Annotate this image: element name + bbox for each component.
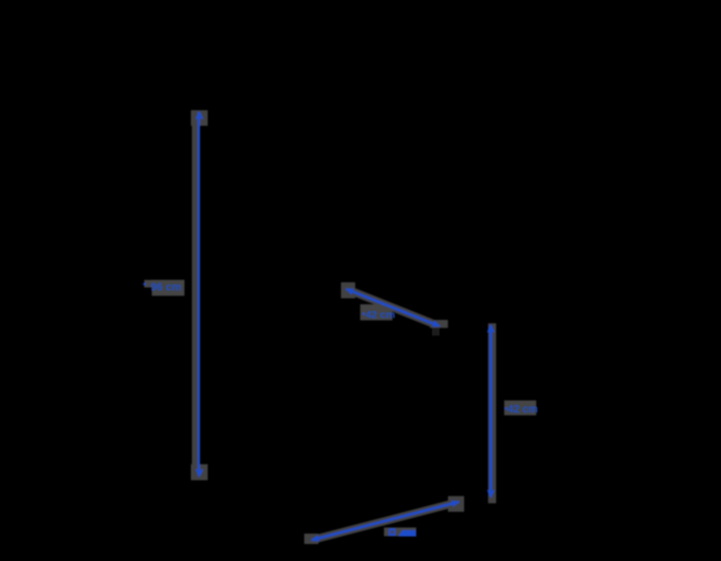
node bottom diagonal left arrow casing xyxy=(304,534,318,544)
wire right dimension casing xyxy=(488,323,496,503)
wire middle diagonal casing xyxy=(345,289,440,327)
node middle diagonal left arrow casing xyxy=(341,282,355,298)
wire bottom diagonal line xyxy=(312,502,459,540)
node right dimension top arrowhead xyxy=(487,324,495,332)
wire left dimension line xyxy=(198,112,200,476)
node middle diagonal right arrow casing xyxy=(430,320,448,328)
node left dimension top arrowhead xyxy=(196,111,204,119)
svg-text:96 cm: 96 cm xyxy=(151,281,182,293)
wire left dimension top arrow casing xyxy=(191,110,208,126)
node bottom label cm blob xyxy=(398,530,416,536)
wire middle diagonal line xyxy=(346,289,439,326)
node bottom diagonal right arrow casing xyxy=(448,496,464,512)
node bottom label ring glyph xyxy=(389,528,396,536)
node 6cm bottom label box xyxy=(384,528,416,537)
svg-text:42 cm: 42 cm xyxy=(366,310,395,321)
node 42cm right label box xyxy=(504,400,536,415)
node middle diagonal right arrow dark under-box xyxy=(432,328,440,336)
node 42cm mid label leader arrow xyxy=(362,312,365,315)
node left dimension bottom arrowhead xyxy=(196,469,204,477)
node 96cm label leader arrow xyxy=(142,283,146,286)
node middle diagonal right arrowhead xyxy=(432,320,441,326)
wire left dimension casing xyxy=(192,110,200,480)
svg-text:42 cm: 42 cm xyxy=(508,403,538,415)
node middle diagonal left arrowhead xyxy=(345,289,354,295)
node 42cm right label leader arrow xyxy=(504,407,507,410)
node right dimension bottom arrowhead xyxy=(487,490,495,498)
node bottom diagonal left arrowhead xyxy=(311,535,320,542)
node 96cm label leader strip xyxy=(144,280,184,288)
node 42cm mid label box xyxy=(360,304,392,320)
node 96cm label box xyxy=(152,280,185,296)
wire right dimension line xyxy=(489,326,492,497)
wire left dimension bottom arrow casing xyxy=(191,464,208,480)
node bottom diagonal right arrowhead xyxy=(451,500,460,507)
wire bottom diagonal casing xyxy=(311,502,460,541)
